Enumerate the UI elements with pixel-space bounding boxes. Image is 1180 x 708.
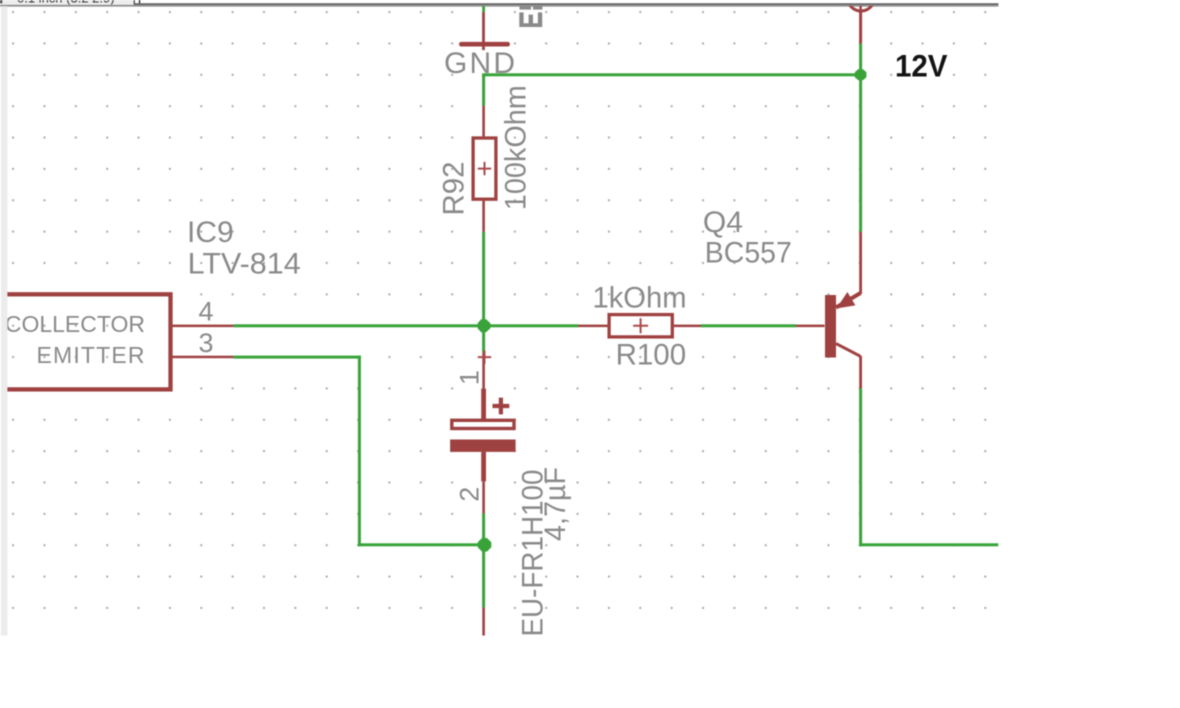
wire base net right	[701, 324, 796, 327]
wire R92 bottom green	[482, 232, 485, 326]
wire 12V vertical upper	[859, 12, 862, 43]
svg-text:LTV-814: LTV-814	[188, 248, 301, 281]
resistor R100 left pin	[578, 325, 608, 328]
wire base net left	[234, 324, 578, 327]
wire junction to cap	[482, 326, 485, 353]
supply symbol 12V circle	[848, 0, 875, 11]
resistor R100 body	[609, 315, 672, 337]
pin 3 of IC9	[173, 356, 234, 359]
svg-text:Q4: Q4	[703, 206, 743, 239]
capacitor top lead thick	[481, 389, 486, 420]
clipped label E (rotated)	[519, 12, 542, 27]
optocoupler IC9 box	[0, 294, 171, 389]
capacitor plate 1	[452, 420, 514, 428]
wire cap pin2 to junction	[482, 513, 485, 544]
toolbar bottom line	[0, 5, 998, 7]
svg-text:1kOhm: 1kOhm	[593, 282, 687, 315]
svg-text:4,7µF: 4,7µF	[539, 467, 572, 541]
svg-text:12V: 12V	[895, 48, 948, 84]
capacitor pin 2 wire	[482, 481, 485, 513]
clipped pin from below	[482, 607, 485, 635]
wire emitter net pin3 horizontal	[234, 356, 361, 359]
capacitor pin 1 wire	[482, 352, 485, 388]
svg-text:IC9: IC9	[187, 216, 234, 249]
resistor R100 right pin	[674, 325, 701, 328]
command input field	[134, 0, 998, 3]
svg-text:100kOhm: 100kOhm	[500, 85, 533, 210]
svg-text:1: 1	[455, 370, 485, 385]
svg-text:2: 2	[455, 487, 485, 502]
svg-text:R92: R92	[438, 162, 471, 216]
wire net GND stub	[482, 6, 485, 12]
clipped glyph fragment 1	[520, 5, 532, 9]
capacitor plate 2	[450, 440, 515, 452]
supply 12V pin	[859, 0, 861, 12]
resistor R92 top pin	[482, 106, 485, 137]
transistor Q4 collector diagonal	[836, 344, 861, 357]
clipped glyph fragment 2	[533, 5, 542, 9]
junction emitter net	[478, 538, 492, 552]
svg-text:3: 3	[199, 328, 214, 358]
pin 4 of IC9	[173, 325, 234, 328]
svg-text:COLLECTOR: COLLECTOR	[5, 311, 145, 337]
capacitor bottom lead thick	[481, 452, 486, 482]
svg-text:BC557: BC557	[705, 236, 792, 269]
wire emitter vertical green	[859, 75, 862, 232]
wire emitter net vertical	[358, 356, 361, 547]
ground GND bar	[459, 42, 510, 47]
svg-text:EMITTER: EMITTER	[37, 342, 145, 368]
dot grid	[7, 6, 998, 636]
wire collector net vertical	[859, 389, 862, 547]
svg-text:4: 4	[199, 297, 214, 327]
origin cross R92	[478, 162, 491, 175]
junction base net	[478, 319, 491, 332]
junction 12V	[855, 69, 867, 80]
resistor R92 bottom pin	[482, 201, 485, 232]
canvas left strip	[1, 6, 7, 635]
toolbar coordinate display (clipped)	[0, 0, 134, 6]
origin cross capacitor	[478, 350, 491, 363]
resistor R92 body	[473, 138, 496, 199]
transistor Q4 base bar	[825, 295, 836, 358]
text cursor	[139, 0, 141, 3]
transistor Q4 base pin	[796, 325, 825, 328]
svg-text:R100: R100	[616, 338, 687, 371]
transistor Q4 collector pin	[859, 356, 862, 389]
transistor Q4 emitter pin	[859, 232, 862, 294]
capacitor plus sign	[493, 398, 510, 415]
wire collector net horizontal	[859, 543, 998, 546]
transistor Q4 emitter diagonal	[836, 293, 861, 308]
wire below junction green	[482, 545, 485, 608]
origin cross R100	[633, 318, 648, 333]
wire 12V horizontal	[482, 73, 861, 76]
ground GND pin	[482, 12, 485, 50]
transistor Q4 emitter arrow	[836, 292, 855, 309]
wire R92 top green	[482, 75, 485, 106]
wire emitter net bottom horizontal	[358, 543, 485, 546]
